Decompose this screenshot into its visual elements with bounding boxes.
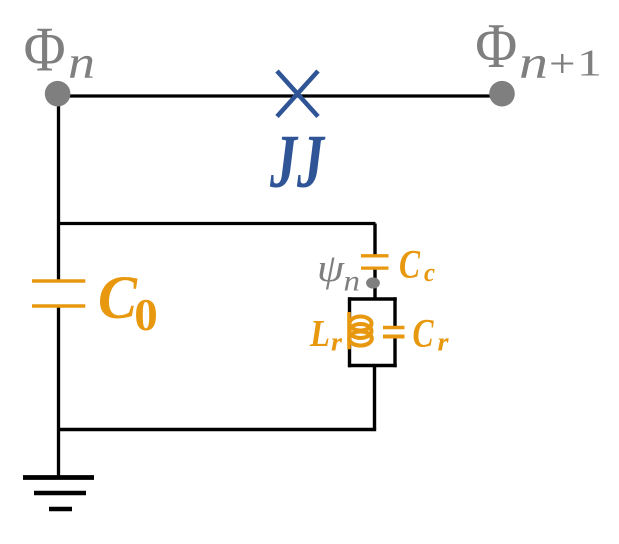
wire middle horizontal xyxy=(57,222,376,225)
svg-text:r: r xyxy=(438,328,450,357)
capacitor Cr plates xyxy=(383,328,405,337)
wire from box bottom down xyxy=(373,366,376,430)
wire left vertical lower segment xyxy=(57,306,60,478)
svg-text:0: 0 xyxy=(134,290,158,340)
svg-text:Φ: Φ xyxy=(24,15,66,85)
label psi_n xyxy=(317,247,360,297)
label C0 xyxy=(98,265,158,340)
svg-text:ψ: ψ xyxy=(317,247,345,290)
label Phi_n+1 xyxy=(475,11,602,89)
wire bottom horizontal xyxy=(57,428,376,431)
wire right branch vertical upper (to Cc) xyxy=(373,224,376,256)
capacitor Cc plates xyxy=(361,256,389,268)
svg-text:C: C xyxy=(98,265,138,332)
svg-text:C: C xyxy=(399,241,421,286)
wire right branch vertical (Cc to box) xyxy=(373,268,376,299)
resonator box outline xyxy=(348,297,397,367)
wire left vertical upper segment xyxy=(57,94,60,281)
svg-text:+: + xyxy=(549,41,576,86)
inductor Lr coil xyxy=(349,312,372,349)
wire top horizontal from node Phi_n to node Phi_n+1 xyxy=(58,94,503,97)
label Lr xyxy=(309,313,343,357)
svg-text:c: c xyxy=(424,258,435,287)
svg-text:n: n xyxy=(519,37,548,89)
label JJ xyxy=(269,120,325,204)
svg-text:JJ: JJ xyxy=(269,120,325,204)
node Phi_n+1 dot xyxy=(489,81,515,107)
svg-text:r: r xyxy=(331,328,343,357)
svg-text:C: C xyxy=(413,311,435,356)
josephson junction X symbol xyxy=(277,71,318,117)
svg-text:Φ: Φ xyxy=(475,11,517,81)
svg-text:1: 1 xyxy=(577,43,602,85)
svg-text:n: n xyxy=(68,37,95,89)
svg-text:n: n xyxy=(344,265,361,298)
label Phi_n xyxy=(24,15,95,90)
node psi_n dot xyxy=(366,277,380,288)
ground xyxy=(23,478,94,510)
label Cc xyxy=(399,241,435,287)
svg-text:L: L xyxy=(309,313,330,355)
capacitor C0 plates xyxy=(32,281,85,306)
node Phi_n dot xyxy=(45,81,71,107)
label Cr xyxy=(413,311,450,357)
